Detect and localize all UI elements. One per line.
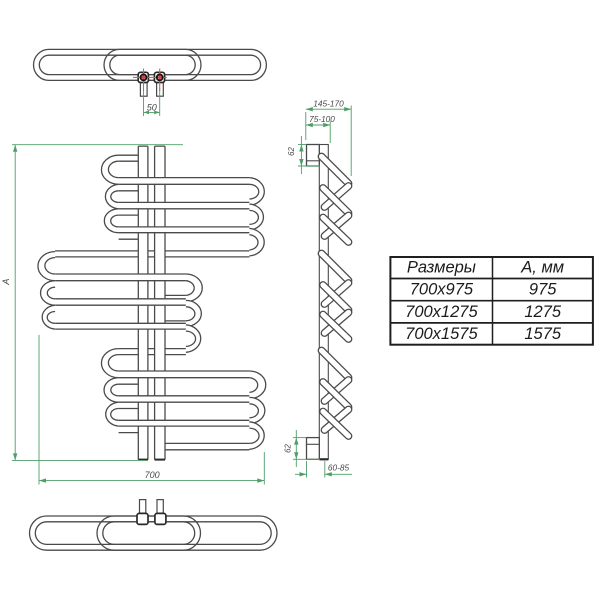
svg-text:50: 50 — [147, 102, 157, 112]
svg-text:700: 700 — [145, 470, 160, 480]
svg-text:62: 62 — [284, 444, 293, 453]
svg-text:700х1275: 700х1275 — [405, 303, 478, 321]
svg-text:A: A — [1, 279, 11, 286]
svg-text:700х975: 700х975 — [410, 281, 474, 299]
svg-text:700х1575: 700х1575 — [405, 325, 478, 343]
svg-text:62: 62 — [287, 147, 296, 156]
svg-text:975: 975 — [529, 281, 557, 299]
svg-text:А, мм: А, мм — [520, 259, 564, 277]
svg-text:60-85: 60-85 — [328, 463, 350, 473]
svg-text:145-170: 145-170 — [313, 98, 344, 108]
svg-text:75-100: 75-100 — [309, 114, 335, 124]
svg-text:1275: 1275 — [524, 303, 562, 321]
svg-text:1575: 1575 — [524, 325, 562, 343]
svg-text:Размеры: Размеры — [407, 259, 476, 277]
